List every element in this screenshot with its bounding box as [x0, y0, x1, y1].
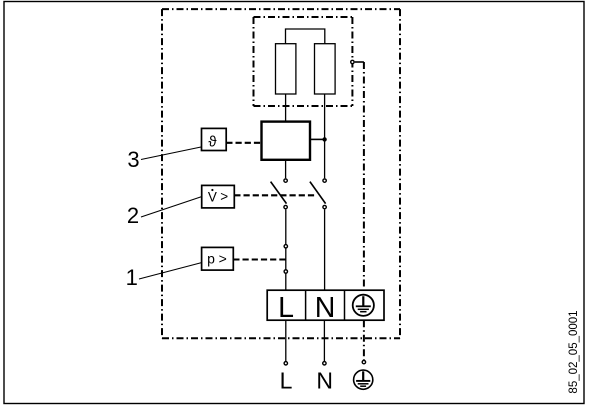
label 1 [126, 263, 202, 291]
heating element E1 [276, 44, 296, 94]
dashed actuation line flow sensor to switches [234, 194, 317, 196]
junction dot on N [322, 137, 326, 141]
svg-text:p: p [207, 250, 215, 266]
svg-text:L: L [278, 292, 294, 324]
appliance enclosure (outer dash-dot boundary) [162, 9, 400, 338]
pressure contact circle top [284, 245, 287, 248]
svg-text:3: 3 [127, 147, 139, 172]
terminal circle N [323, 362, 326, 365]
switch S1 [271, 179, 288, 209]
pressure sensor box p> [202, 247, 234, 270]
svg-text:85_02_05_0001: 85_02_05_0001 [568, 310, 580, 393]
wire: thermostat to N [310, 138, 325, 140]
terminal circle PE [362, 360, 365, 363]
svg-text:N: N [315, 292, 336, 324]
terminal PE symbol [353, 295, 374, 316]
pressure contact circle bottom [284, 270, 287, 273]
wire: S2 bottom to terminal block [324, 209, 326, 290]
wire: N below block [323, 320, 325, 361]
terminal block [267, 290, 384, 324]
svg-text:V: V [208, 189, 217, 204]
svg-text:>: > [219, 250, 227, 266]
terminal circle L [284, 362, 287, 365]
svg-text:L: L [280, 368, 293, 394]
svg-text:N: N [316, 368, 333, 394]
wire: S1 bottom to terminal block (through pressure contact) [285, 209, 287, 290]
PE line (dash-dot) down to terminal block [363, 62, 365, 290]
dashed control line ϑ to thermostat [226, 142, 261, 144]
PE line below block (dash-dot) [363, 320, 365, 360]
sensor box ϑ [202, 128, 227, 150]
svg-text:ϑ: ϑ [208, 134, 217, 151]
label 2 [127, 197, 202, 229]
flow sensor box V> [202, 185, 235, 208]
wire: L below block [285, 320, 287, 361]
label 3 [127, 147, 201, 172]
PE pickup circle on element enclosure [351, 60, 354, 63]
svg-text:1: 1 [126, 265, 138, 290]
thermostat block [262, 122, 311, 160]
wire: E1 bottom to thermostat [285, 94, 287, 122]
heating element E2 [315, 44, 336, 94]
svg-text:2: 2 [127, 203, 139, 228]
external PE symbol [354, 370, 373, 389]
svg-text:>: > [220, 189, 228, 204]
wire: PE pickup to PE line [355, 61, 364, 63]
wire: E2 bottom down N line to switch S2 [324, 94, 326, 178]
dashed actuation line pressure sensor to contact [233, 258, 286, 260]
wire: top link between elements [286, 29, 325, 44]
switch S2 [310, 179, 326, 209]
heating element enclosure (inner dash-dot boundary) [254, 17, 353, 106]
wire: thermostat bottom to switch S1 [285, 160, 287, 179]
